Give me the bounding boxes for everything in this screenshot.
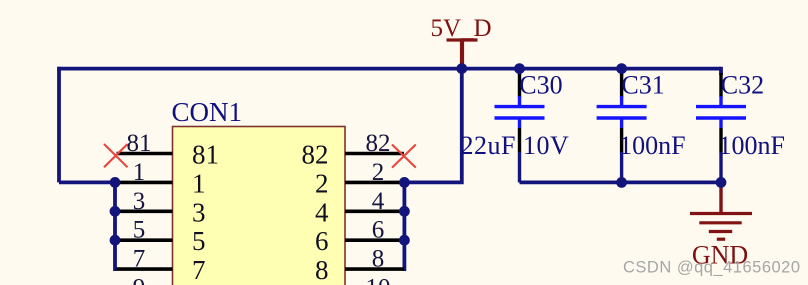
pin 81 (left) bbox=[117, 152, 173, 156]
junction node: pin 6 bbox=[399, 235, 410, 246]
svg-text:1: 1 bbox=[133, 159, 146, 186]
svg-text:8: 8 bbox=[315, 255, 329, 285]
pin 6 (right) bbox=[345, 238, 404, 242]
wire: left bus vertical pins 1-3-5-7 bbox=[115, 182, 117, 269]
capacitor C30 bbox=[495, 69, 545, 183]
wire: bottom ground rail under capacitors bbox=[520, 180, 722, 184]
svg-text:5V_D: 5V_D bbox=[431, 15, 492, 42]
pin 8 (right) bbox=[345, 267, 404, 271]
svg-text:4: 4 bbox=[315, 197, 329, 227]
wire: horizontal into pin 1 bbox=[59, 180, 116, 184]
svg-text:81: 81 bbox=[192, 140, 219, 170]
svg-text:9: 9 bbox=[133, 275, 146, 285]
wire: right bus vertical pins 2-4-6-8 bbox=[403, 182, 404, 269]
svg-text:C32: C32 bbox=[721, 71, 764, 100]
wire: left vertical from top rail down to pin1 row bbox=[57, 67, 61, 183]
svg-text:CON1: CON1 bbox=[172, 97, 243, 127]
pin 2 (right) bbox=[345, 181, 404, 185]
no-ERC cross on pin 81 bbox=[104, 144, 128, 167]
no-ERC cross on pin 82 bbox=[392, 145, 416, 168]
svg-text:2: 2 bbox=[315, 168, 329, 198]
svg-text:7: 7 bbox=[192, 255, 206, 285]
pin 82 (right) bbox=[345, 152, 404, 156]
junction node: pin 2 bbox=[399, 177, 410, 188]
pin 1 (left) bbox=[117, 181, 173, 185]
svg-text:22uF 10V: 22uF 10V bbox=[461, 131, 570, 160]
svg-text:81: 81 bbox=[127, 130, 152, 157]
junction node: riser on 5V rail bbox=[456, 63, 467, 74]
svg-text:2: 2 bbox=[372, 159, 385, 186]
svg-text:100nF: 100nF bbox=[719, 131, 785, 160]
svg-text:5: 5 bbox=[133, 217, 146, 244]
ground symbol GND bbox=[690, 182, 752, 239]
junction node: C31 bottom bbox=[616, 177, 627, 188]
svg-text:82: 82 bbox=[366, 130, 391, 157]
svg-text:C30: C30 bbox=[519, 71, 562, 100]
power port 5V_D bbox=[431, 15, 492, 69]
pin 7 (left) bbox=[117, 267, 173, 271]
pin 5 (left) bbox=[117, 238, 173, 242]
svg-text:CSDN @qq_41656020: CSDN @qq_41656020 bbox=[623, 259, 801, 277]
svg-text:8: 8 bbox=[372, 246, 385, 273]
junction node: pin 4 bbox=[399, 206, 410, 217]
svg-text:6: 6 bbox=[315, 226, 329, 256]
capacitor C31 bbox=[597, 69, 647, 183]
svg-text:5: 5 bbox=[192, 226, 206, 256]
pin 3 (left) bbox=[117, 210, 173, 214]
junction node: pin 1 bbox=[110, 177, 121, 188]
svg-text:3: 3 bbox=[133, 188, 146, 215]
svg-text:10: 10 bbox=[366, 275, 391, 285]
junction node: C32 bottom / GND bbox=[716, 177, 727, 188]
svg-text:C31: C31 bbox=[621, 71, 664, 100]
svg-text:1: 1 bbox=[192, 168, 206, 198]
connector CON1 body bbox=[173, 127, 346, 285]
pin 4 (right) bbox=[345, 210, 404, 214]
wire: riser from rail down to pin2 net bbox=[404, 69, 461, 183]
junction node: C30 top bbox=[514, 63, 525, 74]
svg-text:3: 3 bbox=[192, 197, 206, 227]
svg-text:6: 6 bbox=[372, 217, 385, 244]
junction node: C31 top bbox=[616, 63, 627, 74]
svg-text:82: 82 bbox=[302, 140, 329, 170]
svg-text:100nF: 100nF bbox=[619, 131, 685, 160]
wire: top horizontal 5V rail bbox=[57, 67, 721, 71]
svg-text:4: 4 bbox=[372, 188, 385, 215]
junction node: pin 3 bbox=[110, 206, 121, 217]
junction node: pin 5 bbox=[110, 235, 121, 246]
capacitor C32 bbox=[696, 67, 746, 183]
svg-text:7: 7 bbox=[133, 246, 146, 273]
